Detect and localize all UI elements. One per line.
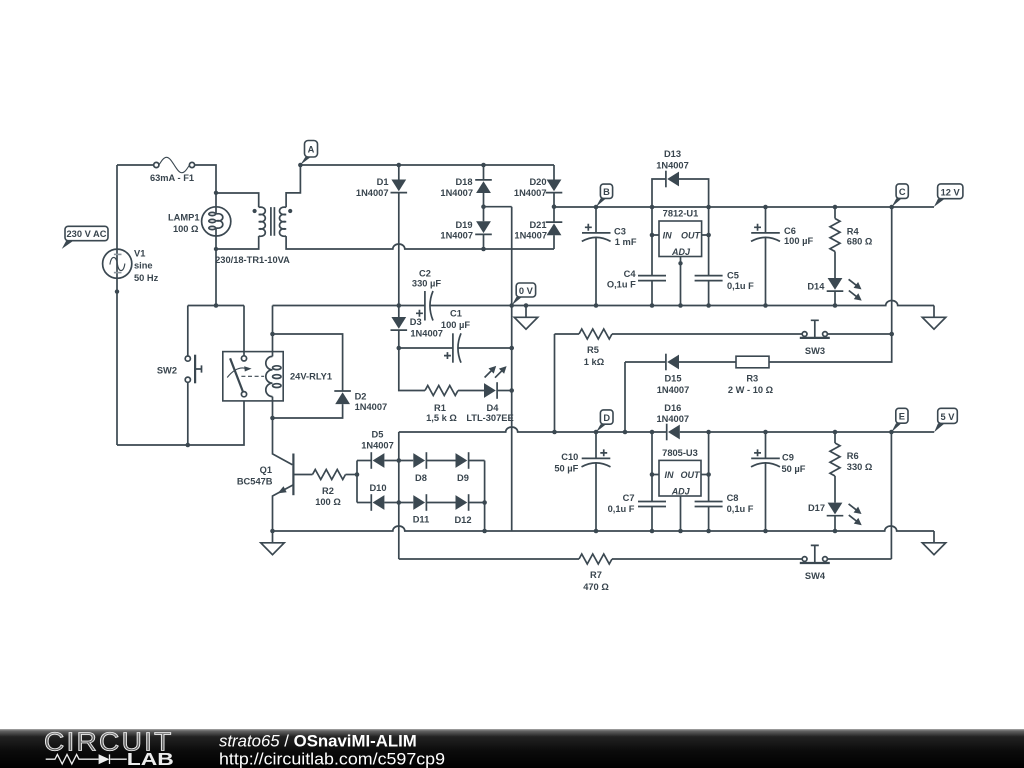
svg-text:SW4: SW4 [805, 571, 826, 581]
resistor R6 [830, 432, 840, 503]
wire D15 down to D rail [624, 362, 626, 432]
svg-text:D3: D3 [410, 317, 422, 327]
diode D18 [475, 165, 492, 207]
svg-text:IN: IN [665, 470, 675, 480]
svg-text:50 µF: 50 µF [554, 464, 578, 474]
wire 0V rail right part [430, 301, 934, 306]
wire matrix feeder column [356, 461, 358, 503]
junction dot [833, 430, 838, 435]
wire C1 row right [458, 347, 512, 349]
junction dot [650, 430, 655, 435]
wire relay coil top to 0V rail [272, 306, 274, 335]
node dot V1 bottom pin [115, 289, 119, 293]
svg-text:V1: V1 [134, 249, 145, 259]
junction dot [833, 205, 838, 210]
junction dot [270, 529, 275, 534]
svg-text:C1: C1 [450, 308, 462, 318]
svg-text:1 kΩ: 1 kΩ [584, 357, 605, 367]
junction dot [397, 346, 402, 351]
svg-text:SW2: SW2 [157, 365, 177, 375]
svg-text:D5: D5 [372, 429, 384, 439]
junction dot [270, 416, 275, 421]
svg-text:100 µF: 100 µF [441, 320, 470, 330]
ground bottom right [922, 531, 945, 555]
flag 5 V [934, 408, 957, 432]
junction dot [397, 163, 402, 168]
junction dot [833, 303, 838, 308]
junction dot [889, 332, 894, 337]
svg-text:C6: C6 [784, 226, 796, 236]
resistor R2 [313, 470, 346, 480]
wire C1 row left [399, 347, 453, 349]
switch SW3 [800, 320, 892, 338]
svg-text:1N4007: 1N4007 [657, 385, 690, 395]
junction dot [482, 529, 487, 534]
svg-text:230/18-TR1-10VA: 230/18-TR1-10VA [215, 255, 290, 265]
svg-text:IN: IN [663, 230, 673, 240]
ground below 0V flag [514, 306, 537, 330]
svg-text:E: E [899, 412, 905, 422]
junction dot [650, 472, 655, 477]
svg-text:R1: R1 [434, 403, 446, 413]
capacitor C4 [638, 207, 666, 306]
diode D12 [456, 494, 485, 511]
svg-text:D21: D21 [529, 220, 546, 230]
svg-text:230 V AC: 230 V AC [67, 229, 107, 239]
svg-text:1N4007: 1N4007 [440, 188, 473, 198]
wire R5 down to D rail [554, 334, 556, 432]
svg-text:680 Ω: 680 Ω [847, 236, 873, 246]
resistor R4 [830, 207, 840, 278]
svg-text:1N4007: 1N4007 [355, 402, 388, 412]
svg-text:D11: D11 [413, 515, 430, 525]
svg-text:strato65 / OSnaviMI-ALIM: strato65 / OSnaviMI-ALIM [219, 732, 417, 751]
svg-text:100 Ω: 100 Ω [315, 497, 341, 507]
svg-text:D19: D19 [455, 220, 472, 230]
svg-text:R4: R4 [847, 227, 860, 237]
svg-text:1 mF: 1 mF [615, 237, 637, 247]
node dot ground stem junction [524, 303, 529, 308]
LED D17 [827, 501, 864, 531]
switch SW4 [612, 545, 891, 563]
svg-text:SW3: SW3 [805, 346, 825, 356]
junction dot [763, 430, 768, 435]
svg-text:1N4007: 1N4007 [356, 188, 389, 198]
svg-text:0 V: 0 V [519, 286, 534, 296]
transformer core bars [271, 207, 275, 236]
svg-text:LAMP1: LAMP1 [168, 212, 200, 222]
node dot lamp top junction [214, 191, 218, 195]
junction dot [481, 163, 486, 168]
LED D14 [827, 276, 864, 305]
junction dot [270, 332, 275, 337]
junction dot [889, 430, 894, 435]
node dot ADJ pin U1 [678, 261, 682, 265]
flag C [892, 184, 909, 207]
svg-text:5 V: 5 V [941, 412, 956, 422]
svg-text:D1: D1 [377, 177, 389, 187]
svg-text:O,1u F: O,1u F [607, 279, 636, 289]
junction dot [397, 458, 402, 463]
junction dot [706, 303, 711, 308]
diode D3 [391, 306, 408, 349]
svg-text:C10: C10 [561, 452, 578, 462]
svg-text:C9: C9 [782, 452, 794, 462]
diode D1 [391, 165, 408, 306]
resistor R1 [425, 386, 458, 396]
junction dot [355, 472, 360, 477]
svg-text:C: C [899, 187, 906, 197]
capacitor C6 [751, 207, 780, 306]
svg-text:BC547B: BC547B [237, 476, 273, 486]
capacitor C1 [444, 333, 461, 362]
diode D5 [357, 452, 413, 469]
junction dot [706, 233, 711, 238]
diode D8 [413, 452, 455, 469]
svg-text:D4: D4 [487, 403, 500, 413]
junction dot [482, 500, 487, 505]
svg-text:A: A [308, 145, 315, 155]
wire V1 vertical left branch [116, 165, 118, 445]
FOOTER [0, 729, 1024, 768]
junction dot [706, 430, 711, 435]
svg-text:R5: R5 [587, 345, 599, 355]
wire 0V rail with C2 in series and hop at SW3 column [273, 305, 425, 307]
svg-text:7812-U1: 7812-U1 [663, 209, 699, 219]
transformer phase dots [253, 209, 257, 213]
junction dot [763, 529, 768, 534]
svg-text:1N4007: 1N4007 [514, 231, 547, 241]
wire C/SW3 column [891, 207, 893, 334]
svg-text:470 Ω: 470 Ω [583, 582, 609, 592]
svg-text:R7: R7 [590, 570, 602, 580]
svg-text:R6: R6 [847, 451, 859, 461]
capacitor C3 [582, 207, 611, 306]
svg-text:D16: D16 [664, 403, 681, 413]
svg-text:D9: D9 [457, 473, 469, 483]
svg-text:0,1u F: 0,1u F [608, 504, 635, 514]
junction dot [552, 204, 557, 209]
svg-text:D: D [603, 413, 610, 423]
svg-text:D15: D15 [664, 374, 681, 384]
svg-text:sine: sine [134, 261, 153, 271]
wire fuse to lamp corner [194, 165, 216, 214]
node dot C [889, 205, 894, 210]
ground below Q1 [261, 531, 284, 555]
capacitor C10 [582, 432, 611, 531]
junction dot [509, 346, 514, 351]
wire SW3 down to R3 row [769, 334, 892, 362]
svg-text:0,1u F: 0,1u F [727, 504, 754, 514]
svg-text:1N4007: 1N4007 [440, 231, 473, 241]
svg-text:D2: D2 [355, 391, 367, 401]
svg-text:R2: R2 [322, 486, 334, 496]
wire bottom ground rail with hops [273, 526, 935, 531]
svg-text:D17: D17 [808, 503, 825, 513]
svg-text:C4: C4 [624, 269, 637, 279]
svg-text:50 µF: 50 µF [782, 464, 806, 474]
svg-text:LAB: LAB [127, 749, 174, 768]
resistor R5 [555, 329, 803, 339]
flag D [596, 410, 613, 432]
wire secondary top to node A [286, 165, 300, 207]
svg-text:1N4007: 1N4007 [656, 160, 689, 170]
wire SW2 top rail [188, 305, 244, 307]
junction dot [623, 430, 628, 435]
junction dot [650, 529, 655, 534]
svg-text:R3: R3 [746, 374, 758, 384]
wire matrix center column down to R7 row [398, 432, 400, 559]
svg-text:24V-RLY1: 24V-RLY1 [290, 372, 332, 382]
flag A [300, 141, 317, 165]
lamp LAMP1 [202, 207, 231, 236]
diode D10 [357, 494, 413, 511]
wire primary bottom [216, 236, 259, 249]
junction dot [397, 500, 402, 505]
junction dot [481, 247, 486, 252]
svg-text:1N4007: 1N4007 [514, 188, 547, 198]
flag E [891, 408, 908, 432]
wire secondary bottom rail with hop over D1 column [286, 236, 554, 249]
svg-text:100 µF: 100 µF [784, 236, 813, 246]
wire bottom rail to relay switch [117, 397, 244, 445]
svg-text:B: B [603, 187, 610, 197]
svg-text:D13: D13 [664, 149, 681, 159]
junction dot [214, 303, 219, 308]
junction dot [678, 529, 683, 534]
wire lamp bottom down to SW2 rail [215, 229, 217, 306]
svg-text:C7: C7 [623, 493, 635, 503]
svg-text:330 µF: 330 µF [412, 279, 441, 289]
transistor Q1 [273, 418, 313, 531]
svg-text:C5: C5 [727, 270, 739, 280]
wire D18/D19 middle to vertical drop [484, 206, 512, 208]
regulator U3 7805 [652, 460, 709, 531]
wire D rail with hop over 0V column and D16 gap [399, 427, 667, 432]
wire rail B from D20/D21 to 12V [554, 206, 934, 208]
junction dot [594, 303, 599, 308]
fuse F1 [154, 157, 195, 172]
wire matrix right column [484, 461, 486, 532]
junction dot [650, 205, 655, 210]
junction dot [706, 205, 711, 210]
diode D20 [546, 165, 563, 207]
svg-text:50 Hz: 50 Hz [134, 273, 159, 283]
junction dot [509, 388, 514, 393]
transformer TR1 primary coil [259, 207, 266, 236]
junction dot [706, 529, 711, 534]
node dot 0V flag junction [509, 303, 514, 308]
diode D21 [546, 207, 563, 249]
svg-text:http://circuitlab.com/c597cp9: http://circuitlab.com/c597cp9 [219, 749, 445, 768]
junction dot [650, 303, 655, 308]
svg-text:OUT: OUT [681, 230, 702, 240]
junction dot [763, 303, 768, 308]
svg-text:63mA - F1: 63mA - F1 [150, 173, 194, 183]
node dot lamp bottom junction [214, 247, 218, 251]
svg-text:1N4007: 1N4007 [410, 329, 443, 339]
diode D16 [667, 424, 680, 441]
wire E/SW4 column [890, 432, 892, 559]
capacitor C2 [416, 291, 433, 321]
svg-text:7805-U3: 7805-U3 [662, 448, 698, 458]
svg-text:1N4007: 1N4007 [657, 414, 690, 424]
svg-text:12 V: 12 V [941, 187, 961, 197]
wire primary top [216, 193, 259, 207]
node dot A junction [298, 163, 303, 168]
svg-text:OUT: OUT [681, 470, 702, 480]
junction dot [288, 209, 292, 213]
junction dot [594, 430, 599, 435]
diode D9 [456, 452, 485, 469]
node dots on D rail [552, 430, 557, 435]
svg-text:2 W - 10 Ω: 2 W - 10 Ω [728, 385, 774, 395]
diode D2 [273, 334, 351, 418]
wire top rail A to D20 [300, 164, 554, 166]
svg-text:C8: C8 [727, 493, 739, 503]
svg-text:ADJ: ADJ [671, 247, 691, 257]
svg-text:D20: D20 [529, 177, 546, 187]
resistor R3 [736, 356, 769, 368]
capacitor C7 [638, 432, 666, 531]
svg-text:330 Ω: 330 Ω [847, 462, 873, 472]
diode D19 [475, 207, 492, 249]
LED D4 [482, 363, 512, 399]
flag B [596, 184, 613, 207]
svg-text:1N4007: 1N4007 [361, 440, 394, 450]
svg-text:LTL-307EE: LTL-307EE [466, 413, 513, 423]
capacitor C9 [751, 432, 780, 531]
wire D3 to R1 [399, 348, 425, 391]
transformer TR1 secondary coil [280, 207, 287, 236]
regulator U1 7812 [652, 221, 709, 306]
junction dot [481, 204, 486, 209]
relay RLY1 [223, 306, 283, 419]
junction dot [706, 472, 711, 477]
junction dot [678, 303, 683, 308]
flag 0 V [512, 283, 536, 305]
junction dot [650, 233, 655, 238]
svg-text:C3: C3 [614, 226, 626, 236]
junction dot [186, 443, 191, 448]
capacitor C8 [695, 432, 723, 531]
svg-text:D14: D14 [807, 281, 825, 291]
junction dot [833, 529, 838, 534]
svg-text:C2: C2 [419, 268, 431, 278]
svg-text:1,5 k Ω: 1,5 k Ω [426, 413, 457, 423]
resistor R7 [399, 554, 612, 564]
switch SW2 [185, 306, 201, 446]
svg-text:0,1u F: 0,1u F [727, 281, 754, 291]
svg-text:D12: D12 [454, 515, 471, 525]
svg-text:D10: D10 [369, 483, 386, 493]
wire long vertical 0V column [511, 207, 513, 531]
capacitor C5 [695, 207, 723, 306]
diode D15 [625, 354, 736, 371]
wire top rail left from V1 to fuse [117, 164, 154, 166]
node dot D1/D3 on 0V rail [397, 303, 402, 308]
svg-text:ADJ: ADJ [671, 486, 691, 496]
svg-text:100 Ω: 100 Ω [173, 224, 199, 234]
node dot B [594, 205, 599, 210]
flag 230 V AC [62, 226, 108, 249]
svg-text:Q1: Q1 [260, 465, 272, 475]
junction dot [594, 529, 599, 534]
flag 12 V [934, 184, 963, 207]
svg-text:D8: D8 [415, 473, 427, 483]
svg-text:D18: D18 [455, 177, 472, 187]
source V1 [103, 249, 132, 278]
ground top right [922, 306, 945, 330]
diode D11 [413, 494, 455, 511]
junction dot [763, 205, 768, 210]
diode D13 [652, 171, 709, 207]
